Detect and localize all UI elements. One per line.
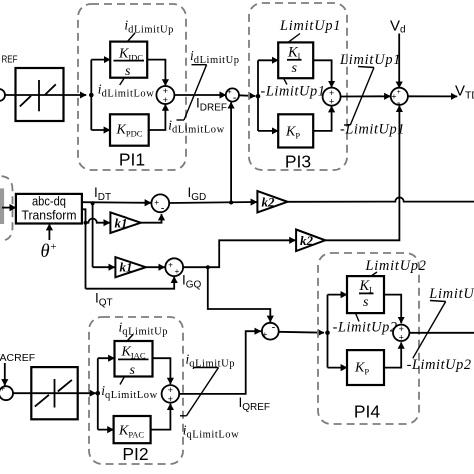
wire PI4 input branch bbox=[327, 295, 329, 368]
wire k2 lower up to S4 bbox=[325, 106, 399, 241]
wire KIDC to S1 bbox=[147, 60, 165, 86]
gain k2 lower bbox=[296, 230, 325, 252]
summing junction S4 (voltage reference output) bbox=[391, 88, 408, 105]
wire S4 to VTD bbox=[408, 95, 457, 97]
summing junction S8 (AC voltage error) bbox=[0, 386, 13, 400]
integrator block KIDC/s bbox=[110, 42, 147, 79]
svg-text:+: + bbox=[168, 261, 173, 270]
gain k1 upper bbox=[110, 212, 140, 233]
wire PI2 input branch bbox=[97, 358, 99, 429]
node tap IGQ down bbox=[206, 265, 210, 269]
proportional block KP (PI4) bbox=[347, 350, 384, 385]
svg-text:PI4: PI4 bbox=[354, 402, 381, 422]
svg-text:PI2: PI2 bbox=[122, 444, 148, 464]
node tap A to k1 upper bbox=[84, 221, 88, 225]
node tap B on IDT bbox=[91, 201, 95, 205]
summing junction S5 (d-axis current) bbox=[151, 194, 169, 212]
node junction PI4 input bbox=[325, 331, 330, 336]
svg-text:+: + bbox=[163, 95, 168, 105]
svg-text:-: - bbox=[233, 92, 237, 104]
node tap IGD feedback bbox=[229, 201, 233, 205]
integrator block KIAC/s bbox=[115, 341, 153, 378]
limiter slash L2 bbox=[344, 67, 374, 126]
wire KI4 to S10 bbox=[384, 295, 401, 324]
annotation line iqLimitUp to KIAC bbox=[127, 335, 133, 342]
wire PI3 input branch bbox=[257, 60, 259, 131]
summing junction S1 (PI1 output) bbox=[156, 86, 174, 104]
summing junction S3 (PI3 output) bbox=[323, 88, 341, 106]
gain k2 upper bbox=[257, 191, 287, 213]
annotation line iqLimitLow to KIAC bbox=[120, 377, 125, 385]
wire Vd into S4 bbox=[398, 34, 400, 88]
svg-text:+: + bbox=[397, 89, 401, 96]
wire VACREF into S8 bbox=[4, 363, 6, 386]
wire k1 lower to S6 bbox=[146, 266, 165, 268]
svg-text:PI1: PI1 bbox=[119, 149, 145, 169]
dashed stub arc bbox=[2, 176, 13, 240]
summing junction S0 (DC current error, left edge) bbox=[0, 89, 5, 101]
annotation line LimitUp1 to KI3 bbox=[288, 34, 300, 43]
wire S5 to k2 upper bbox=[169, 202, 257, 203]
wire KPAC to S9 bbox=[151, 404, 171, 430]
summing junction S6 (q-axis current) bbox=[165, 258, 183, 276]
svg-text:+: + bbox=[262, 329, 267, 339]
wire IGQ down to S7 bbox=[208, 267, 270, 322]
svg-text:VACREF: VACREF bbox=[0, 352, 35, 364]
wire into abc-dq bbox=[2, 207, 16, 209]
grey stub (AC system measurement) bbox=[0, 188, 4, 224]
wire S2 to PI3 bbox=[239, 94, 255, 97]
wire S7 to PI4 bbox=[279, 331, 324, 334]
svg-text:s: s bbox=[363, 295, 369, 310]
wire k2 upper output (hops over riser) bbox=[288, 197, 474, 201]
svg-text:+: + bbox=[399, 333, 404, 343]
limiter slash L3 bbox=[180, 368, 219, 416]
svg-text:-: - bbox=[272, 322, 276, 334]
svg-text:abc-dq: abc-dq bbox=[32, 195, 66, 209]
wire to KPAC bbox=[98, 429, 114, 431]
wire IQT to S6 bottom bbox=[86, 277, 175, 289]
svg-text:-: - bbox=[161, 202, 165, 214]
integrator block KI/s (PI4) bbox=[347, 276, 384, 313]
svg-text:Transform: Transform bbox=[22, 209, 77, 223]
wire IDT to S5 bbox=[82, 201, 151, 204]
wire to KPDC bbox=[91, 129, 110, 131]
svg-text:k2: k2 bbox=[262, 195, 276, 210]
dashed box PI3 bbox=[249, 3, 347, 170]
node junction PI2 input bbox=[96, 391, 101, 396]
wire to KI4 bbox=[328, 294, 348, 296]
node junction PI3 input bbox=[256, 94, 261, 99]
wire S6 to k2 lower bbox=[183, 240, 296, 267]
wire S8 to deadband DB2 bbox=[13, 392, 96, 394]
svg-text:LimitUp1: LimitUp1 bbox=[279, 18, 341, 34]
svg-text:LimitUp1: LimitUp1 bbox=[339, 52, 401, 68]
wire S10 output bbox=[409, 332, 474, 334]
proportional block KPDC bbox=[110, 114, 149, 145]
svg-text:+: + bbox=[175, 267, 180, 276]
summing junction S9 (PI2 output) bbox=[162, 385, 180, 403]
svg-text:+: + bbox=[329, 97, 334, 107]
dashed box PI4 bbox=[318, 253, 419, 424]
wire KPDC to S1 bbox=[149, 104, 166, 130]
svg-text:-LimitUp1: -LimitUp1 bbox=[261, 84, 326, 100]
svg-text:s: s bbox=[130, 363, 136, 378]
wire B to k1 lower input bbox=[93, 266, 115, 268]
wire IGD feedback up into S2 bbox=[230, 102, 232, 203]
svg-text:+: + bbox=[0, 383, 5, 393]
annotation line -LimitUp2 to KI4 bbox=[356, 313, 360, 321]
proportional block KP (PI3) bbox=[278, 114, 313, 147]
integrator block KI/s (PI3) bbox=[278, 42, 313, 78]
wire KP4 to S10 bbox=[384, 342, 401, 367]
svg-text:k1: k1 bbox=[120, 260, 133, 275]
wire KP3 to S3 bbox=[313, 106, 331, 131]
svg-text:-LimitUp1: -LimitUp1 bbox=[340, 122, 405, 138]
wire IQT out of abc-dq bbox=[82, 209, 86, 288]
svg-text:-LimitUp2: -LimitUp2 bbox=[407, 357, 472, 373]
wire S1 to S2 bbox=[174, 94, 226, 96]
annotation line idLimitUp to KIDC bbox=[127, 33, 135, 42]
summing junction S2 (d current compare) bbox=[226, 88, 239, 101]
annotation line idLimitLow to KIDC bbox=[120, 78, 125, 85]
wire to KIAC bbox=[98, 357, 115, 359]
deadband block DB2 bbox=[31, 367, 77, 419]
svg-text:+: + bbox=[227, 87, 232, 96]
node junction PI1 input bbox=[89, 93, 94, 98]
wire to KIDC bbox=[91, 59, 110, 61]
dashed box PI1 bbox=[78, 4, 186, 170]
proportional block KPAC bbox=[114, 416, 151, 443]
wire to KP3 bbox=[258, 130, 278, 132]
svg-text:k2: k2 bbox=[300, 233, 314, 248]
wire to KP4 bbox=[328, 367, 348, 369]
svg-text:LimitUp2: LimitUp2 bbox=[365, 258, 427, 274]
svg-text:+: + bbox=[168, 394, 173, 404]
svg-text:REF: REF bbox=[2, 54, 18, 66]
dashed box PI2 bbox=[89, 317, 183, 464]
svg-text:PI3: PI3 bbox=[285, 152, 311, 172]
wire A to k1 upper input (hops over B) bbox=[86, 219, 110, 223]
deadband block DB1 bbox=[16, 68, 64, 121]
svg-text:-LimitUp2: -LimitUp2 bbox=[333, 320, 398, 336]
svg-text:+: + bbox=[154, 198, 159, 207]
abc-dq transform block bbox=[16, 194, 82, 224]
wire S0 to deadband DB1 bbox=[5, 94, 86, 96]
limiter slash L4 bbox=[413, 301, 446, 359]
wire theta into abc-dq bbox=[48, 224, 50, 240]
svg-text:s: s bbox=[292, 61, 298, 76]
summing junction S7 (q current compare) bbox=[262, 323, 279, 340]
annotation line LimitUp2 to KI4 bbox=[371, 272, 377, 276]
wire k1 upper to S5 bbox=[141, 214, 162, 223]
wire KIAC to S9 bbox=[153, 358, 171, 384]
gain k1 lower bbox=[115, 257, 145, 277]
svg-text:LimitUp2: LimitUp2 bbox=[428, 286, 474, 302]
annotation line -LimitUp1 to KI3 bbox=[284, 78, 288, 84]
svg-text:k1: k1 bbox=[115, 216, 128, 231]
wire KI3 to S3 bbox=[313, 60, 331, 87]
wire B down to k1 lower bbox=[92, 203, 94, 267]
wire to KI3 bbox=[258, 59, 278, 61]
wire S9 to S7 bbox=[179, 331, 261, 394]
wire PI1 input branch bbox=[90, 60, 92, 130]
limiter slash L1 bbox=[177, 65, 207, 120]
wire S3 to S4 bbox=[341, 95, 391, 97]
svg-text:s: s bbox=[125, 64, 131, 79]
summing junction S10 (PI4 output) bbox=[393, 325, 409, 341]
